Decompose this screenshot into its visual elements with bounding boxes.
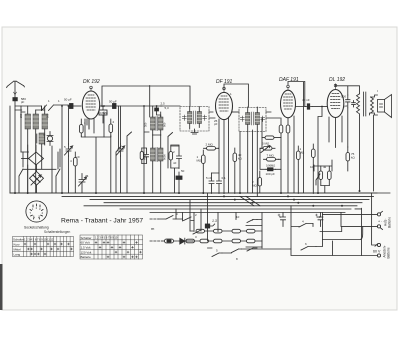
terminal 4 anode - [377, 254, 380, 257]
svg-text:DF 191: DF 191 [216, 79, 233, 85]
svg-text:10: 10 [310, 165, 314, 169]
capacitor C15 0.1 [217, 173, 222, 194]
contact row 1 (rounded rects) [196, 229, 262, 233]
svg-text:60 V: 60 V [373, 250, 381, 254]
svg-text:0,1: 0,1 [222, 176, 227, 180]
capacitor C6 (parallel circle symbol) [47, 132, 53, 146]
tuning capacitor C8 (diamond with arrow) [30, 172, 44, 186]
label DAF 191 [279, 77, 299, 83]
coil L6 oscillator [159, 112, 164, 135]
svg-text:60 Volt: 60 Volt [81, 241, 90, 245]
fuse F1 [162, 239, 178, 243]
dial circle [26, 201, 47, 222]
svg-text:800: 800 [46, 113, 50, 118]
wire DL anode to output transformer [336, 84, 360, 94]
electrolytic cap C20 [316, 213, 324, 227]
label 60V [373, 250, 381, 254]
wire DL pins and right verticals [304, 82, 348, 193]
capacitor C4 50uF series [113, 104, 163, 109]
resistor R19 2 MΩ upper [262, 136, 281, 139]
capacitor C23 5nF [352, 101, 356, 108]
node m (dash lead) [150, 219, 162, 241]
switch S8 upper right of block [247, 220, 257, 223]
svg-text:500: 500 [341, 95, 346, 99]
junction block at 207.5,226 [205, 224, 214, 228]
potentiometer P1 with arrow [260, 146, 275, 153]
coil L8 oscillator lower [159, 135, 164, 193]
resistor R7 40 kΩ [233, 148, 237, 194]
wire bus 4 [104, 202, 362, 204]
svg-text:5 nF: 5 nF [206, 176, 212, 180]
IF transformer T2 dashed box [239, 108, 266, 132]
wire bus to IF1 [161, 105, 181, 107]
coil L3 [42, 106, 48, 135]
label Sockelschaltung [24, 226, 49, 230]
wire antenna to input bus [15, 106, 42, 111]
capacitor C16 40nF series [306, 104, 328, 109]
svg-text:50: 50 [181, 169, 185, 173]
switch S10 below [212, 253, 222, 257]
svg-text:DL 192: DL 192 [329, 77, 345, 83]
label 1.3 [212, 219, 217, 223]
tube V1 internals [86, 86, 96, 110]
junction dots on buses [14, 105, 361, 227]
resistor R1 below DK [80, 119, 84, 136]
tube V2 internals [219, 87, 229, 111]
svg-text:2,5: 2,5 [161, 102, 166, 106]
resistor R6 1 MΩ [202, 150, 206, 194]
capacitor C22 osc [142, 148, 149, 164]
switch S12 [299, 224, 313, 228]
ground under T1 [191, 129, 198, 134]
tube V4 DL192 envelope [327, 90, 344, 118]
svg-text:DK 192: DK 192 [83, 79, 100, 85]
trimmer cap C10 with arrow [117, 144, 125, 156]
wire feedback top [102, 86, 190, 107]
switch S6 [184, 217, 195, 221]
label DF 191 [216, 79, 233, 85]
resistor R11 grid DL [312, 144, 316, 194]
tube V2 DF191 envelope [216, 92, 233, 119]
coil L4 with core [37, 133, 45, 169]
wire osc joins [144, 106, 161, 193]
resistor R14 [328, 166, 332, 186]
wire bus 1 (ground) [10, 192, 377, 194]
title Rema - Trabant - Jahr 1957 [61, 218, 143, 225]
svg-text:Lang: Lang [14, 253, 21, 257]
resistor R5 2 MΩ [204, 147, 219, 151]
switch S4 right [316, 174, 320, 185]
IF transformer T1 coils [182, 107, 206, 130]
wire DK cathode pins [85, 112, 99, 137]
wire DF anode vertical [233, 112, 253, 193]
antenna [7, 81, 25, 94]
label Heiz-Batterie [384, 217, 392, 228]
wire antenna down [14, 110, 16, 193]
svg-text:MΩ: MΩ [197, 159, 202, 163]
wire bus 7 [150, 212, 345, 214]
svg-text:Rema - Trabant - Jahr 1957: Rema - Trabant - Jahr 1957 [61, 218, 143, 225]
switch S2a bottom left [19, 152, 23, 193]
wire bracket below DK [81, 136, 111, 193]
socket pin numbers [30, 206, 44, 219]
svg-text:50 µF: 50 µF [109, 100, 117, 104]
switch S11 [232, 249, 242, 253]
wire to terminals [323, 193, 378, 255]
svg-text:5,3: 5,3 [165, 106, 170, 110]
svg-text:Batterie: Batterie [388, 217, 392, 228]
switch S9 lower right of block [247, 248, 257, 251]
svg-text:1 2 3 4 5 6 7 8 9 10: 1 2 3 4 5 6 7 8 9 10 [95, 236, 118, 240]
switch S14 osc left [127, 132, 132, 193]
capacitor C11 with arrow [79, 174, 87, 194]
scan dark edge bar left [0, 264, 3, 310]
wire bottom joins [208, 213, 292, 254]
resistor R13 bias lower [319, 166, 323, 186]
terminal 2 heater - [377, 225, 382, 230]
table 1 plus marks [24, 243, 73, 255]
IF transformer T1 dashed box [180, 107, 209, 132]
svg-text:10: 10 [236, 215, 240, 219]
svg-text:pF: pF [21, 100, 25, 104]
svg-text:Mittel: Mittel [14, 248, 22, 252]
wire right area frame [370, 91, 378, 191]
switch S1b [49, 105, 69, 111]
svg-text:4k: 4k [323, 165, 327, 169]
wire DAF top to coupling cap [288, 82, 306, 107]
electrolytic cap C19 [278, 213, 286, 227]
tuning capacitor C7 (diamond) [22, 152, 44, 165]
value labels layer [19, 92, 356, 261]
caption Schalterstellungen [44, 230, 70, 234]
wire DF pins down [212, 117, 229, 194]
wire T1 to DF grid [209, 112, 215, 118]
label DK 192 [83, 79, 100, 85]
wire DF top cap link [224, 84, 248, 107]
switch S7 [190, 231, 200, 235]
svg-text:Schalter: Schalter [81, 236, 92, 240]
wire osc caps joins [171, 145, 179, 193]
svg-text:1 2 3 4 5 6 7 8 9 10 11 12: 1 2 3 4 5 6 7 8 9 10 11 12 [24, 237, 54, 241]
switch S2b [56, 149, 60, 193]
capacitor C21 osc coupling [150, 86, 161, 118]
svg-text:2 MΩ: 2 MΩ [206, 143, 214, 147]
wire right bottom network [291, 206, 378, 256]
wire DF anode right [233, 111, 240, 113]
switch S5 (y219 row) [158, 216, 183, 220]
svg-text:25: 25 [85, 174, 89, 178]
table 2 plus marks [95, 242, 142, 258]
svg-text:Kurz: Kurz [14, 243, 21, 247]
wire T2 to DAF [266, 112, 280, 118]
wire horiz mid-left [21, 135, 45, 172]
svg-text:1,5 Volt: 1,5 Volt [81, 246, 91, 250]
switch S1a (band switch top) [42, 105, 47, 111]
wire bus 5 [84, 205, 357, 207]
wire input top joins [15, 106, 45, 112]
coil L7 oscillator lower [151, 135, 156, 193]
polarity marks heater [378, 219, 385, 223]
resistor R16 osc damping [140, 148, 143, 164]
wire bus 6 [120, 208, 351, 210]
svg-text:50 µF: 50 µF [64, 98, 72, 102]
svg-text:5 MΩ: 5 MΩ [262, 142, 270, 146]
wire T3 primary bottom down [359, 115, 361, 191]
diagonal wires upper right [240, 196, 260, 205]
svg-text:Schalter: Schalter [13, 238, 24, 242]
capacitor C13 filled osc [176, 172, 182, 193]
svg-text:0,96MΩ: 0,96MΩ [266, 164, 275, 168]
wire DAF grid left components [260, 118, 281, 169]
svg-text:MΩ: MΩ [252, 184, 257, 188]
wire extra left verticals [23, 135, 58, 193]
svg-text:9000: 9000 [163, 154, 167, 160]
svg-text:nF: nF [173, 161, 177, 165]
capacitor C14 5nF [209, 173, 214, 194]
wire bus 2 [62, 195, 374, 197]
terminal 3 anode + [375, 243, 381, 246]
resistor R10 [297, 146, 301, 194]
label m [151, 226, 155, 231]
resistor R12 75 kΩ [346, 147, 350, 171]
svg-text:100 pF: 100 pF [266, 172, 276, 176]
wire input coils bottom join [10, 165, 390, 193]
svg-text:0,8MΩ: 0,8MΩ [100, 111, 108, 115]
resistor R2 [109, 119, 113, 136]
wire left verticals [10, 106, 28, 193]
diode D1 [179, 238, 193, 244]
resistor R3 [74, 152, 78, 193]
resistor R15 0.8 MΩ box [99, 106, 107, 123]
capacitor C18 500pF at DL [346, 95, 350, 108]
capacitor C2 series on grid line [68, 104, 81, 109]
capacitor C12 osc [177, 146, 182, 169]
IF transformer T2 coils [240, 107, 264, 197]
tube V3 DAF191 envelope [281, 90, 296, 118]
osc transformer cores [156, 117, 158, 162]
svg-text:MΩ: MΩ [300, 151, 305, 155]
switch S3 osc [116, 106, 121, 193]
svg-text:Sockelschaltung: Sockelschaltung [24, 226, 49, 230]
output transformer T3 primary [357, 92, 366, 116]
svg-text:pF: pF [344, 104, 348, 108]
capacitor C17 100 pF [266, 168, 276, 171]
output transformer T3 secondary [371, 97, 374, 113]
capacitor C1 580pF (antenna series cap) [13, 94, 17, 110]
svg-text:0,1: 0,1 [317, 215, 322, 219]
loudspeaker LS [371, 95, 392, 118]
switch S13 [301, 247, 316, 251]
bracket frame right of contacts [246, 226, 262, 248]
resistor R4 osc [169, 146, 173, 168]
label DL 192 [329, 77, 345, 83]
wire DK anode to right [100, 105, 112, 107]
svg-text:7 MΩ: 7 MΩ [267, 154, 275, 158]
wire heater loop corners [320, 227, 363, 240]
tube V1 DK192 envelope [82, 91, 99, 119]
wire DAF pins [281, 116, 294, 193]
tube V4 internals [331, 84, 341, 108]
svg-text:40 nF: 40 nF [302, 98, 310, 102]
tube V3 internals [284, 85, 293, 109]
svg-text:300: 300 [144, 122, 148, 127]
coil L5 oscillator [151, 106, 156, 135]
svg-text:900: 900 [163, 122, 167, 127]
switch S15 osc right [168, 133, 173, 169]
resistor R9 2 MΩ vertical [258, 171, 262, 193]
coil L1 antenna winding [25, 106, 31, 193]
svg-text:nF: nF [77, 155, 81, 159]
label Anoden-Batterie [383, 245, 391, 258]
wire bias network box [314, 160, 332, 193]
resistor R8 7 MΩ [264, 158, 279, 162]
wire drops from bus band [176, 193, 236, 241]
trimmer cap C9 with arrow [65, 144, 73, 156]
svg-text:pF: pF [214, 122, 218, 126]
resistor R18 on DAF pin [286, 125, 290, 133]
svg-text:1.3: 1.3 [212, 219, 217, 223]
wire bus 3 [90, 199, 369, 201]
resistor R17 on DAF pin [279, 125, 283, 133]
svg-text:7500: 7500 [144, 154, 148, 160]
contact row 2 [186, 239, 262, 243]
svg-text:DAF 191: DAF 191 [279, 77, 299, 83]
svg-text:Schalterstellungen: Schalterstellungen [44, 230, 70, 234]
coil L2 [33, 110, 39, 169]
terminal 1 heater + [377, 211, 382, 216]
wire verticals DK area [62, 106, 121, 193]
svg-text:Batterie: Batterie [81, 255, 92, 259]
svg-text:250: 250 [19, 113, 23, 118]
svg-text:Batterie: Batterie [387, 247, 391, 258]
svg-text:120 Volt: 120 Volt [81, 250, 92, 254]
